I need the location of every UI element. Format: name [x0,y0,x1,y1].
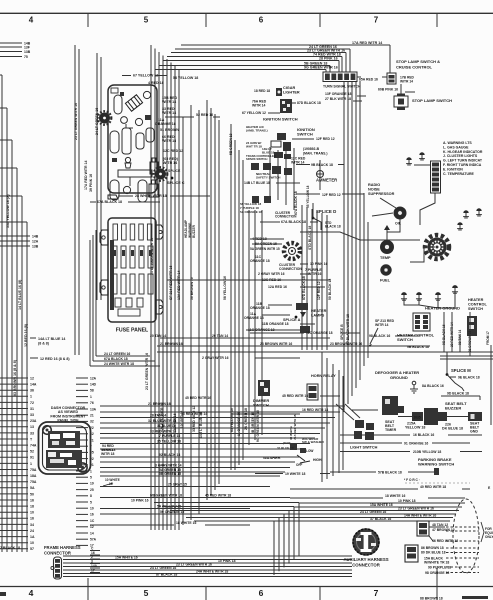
svg-text:23 LT GREEN WITR 16: 23 LT GREEN WITR 16 [176,563,212,567]
svg-text:55A YELLOW 18 (X): 55A YELLOW 18 (X) [6,194,10,228]
svg-text:3 GRAY WITR 14: 3 GRAY WITR 14 [155,464,182,468]
svg-text:1: 1 [30,462,32,466]
svg-text:17: 17 [91,569,95,573]
svg-text:88 BROWN 18: 88 BROWN 18 [420,597,443,600]
svg-text:BUZZER: BUZZER [445,406,461,411]
svg-text:SAFETY SWITCH: SAFETY SWITCH [256,176,280,180]
svg-text:98 BLACK 16: 98 BLACK 16 [369,334,390,338]
svg-text:12 RED 16 (8): 12 RED 16 (8) [24,323,28,347]
svg-text:2A GREEN 18: 2A GREEN 18 [244,408,248,430]
svg-text:5A GREEN WITR 15: 5A GREEN WITR 15 [250,247,280,251]
svg-text:67A BLACK 18: 67A BLACK 18 [104,357,128,361]
svg-text:14A LT BLUE 14: 14A LT BLUE 14 [38,337,65,341]
svg-text:5: 5 [90,500,92,504]
svg-text:35 YELLOW 18: 35 YELLOW 18 [157,440,181,444]
svg-text:67A BLACK 18: 67A BLACK 18 [97,200,122,204]
svg-text:25: 25 [90,488,94,492]
svg-text:65A RED 16: 65A RED 16 [359,78,378,82]
svg-text:58: 58 [90,389,94,393]
svg-text:13B: 13B [24,50,31,54]
svg-text:5B GREEN 18: 5B GREEN 18 [229,133,233,155]
svg-text:40 RED WITR 18: 40 RED WITR 18 [420,485,446,489]
svg-text:13: 13 [30,425,34,429]
svg-text:24 LT GREEN 16: 24 LT GREEN 16 [360,510,386,514]
svg-text:LIGHT SWITCH: LIGHT SWITCH [350,446,378,450]
svg-text:37 BLACK 16: 37 BLACK 16 [370,517,391,521]
svg-text:67A BLACK 18: 67A BLACK 18 [294,191,298,215]
svg-text:8: 8 [90,494,92,498]
svg-text:7: 7 [374,16,379,25]
svg-text:87 BLACK 18: 87 BLACK 18 [156,573,177,577]
svg-text:67 YELLOW 12: 67 YELLOW 12 [133,74,158,78]
svg-text:ORANGE 18: ORANGE 18 [250,259,270,263]
svg-text:CONNECTOR: CONNECTOR [44,551,71,556]
svg-text:12A RED 16: 12A RED 16 [268,285,287,289]
svg-text:21 BROWN 16: 21 BROWN 16 [160,342,183,346]
svg-text:15A WHITE 16: 15A WHITE 16 [115,556,138,560]
svg-text:18A: 18A [30,474,37,478]
svg-text:12: 12 [90,525,94,529]
svg-text:FRAME HARNESS: FRAME HARNESS [44,545,81,550]
svg-text:SWITCH: SWITCH [397,337,413,342]
svg-text:4: 4 [29,588,34,598]
svg-text:6: 6 [259,588,264,598]
svg-text:CONTROL: CONTROL [468,303,487,307]
svg-text:52: 52 [30,450,34,454]
svg-text:57B BLACK 18: 57B BLACK 18 [378,471,402,475]
svg-text:9E BLACK 18: 9E BLACK 18 [458,376,480,380]
svg-text:10 PINK 16: 10 PINK 16 [310,262,328,266]
svg-text:SWITCH: SWITCH [297,132,313,137]
svg-text:G. LEFT TURN INDICAT: G. LEFT TURN INDICAT [443,159,483,163]
svg-text:F. RIGHT TURN INDICA: F. RIGHT TURN INDICA [443,163,482,167]
svg-text:NOISE: NOISE [368,188,380,192]
svg-text:23 LT GREEN WITR 16: 23 LT GREEN WITR 16 [398,507,434,511]
svg-text:14B LT BLUE 18: 14B LT BLUE 18 [244,181,270,185]
svg-text:23 BROWN WITR 16: 23 BROWN WITR 16 [330,342,362,346]
svg-text:CRUISE CONTROL: CRUISE CONTROL [396,65,433,70]
svg-text:16 RED WITR 14: 16 RED WITR 14 [302,408,328,412]
svg-text:21 BROWN 16: 21 BROWN 16 [148,402,171,406]
svg-text:BUZZER: BUZZER [192,224,196,238]
svg-text:* F O R C ·: * F O R C · [404,478,420,482]
svg-text:98 ORANGE 18: 98 ORANGE 18 [425,571,449,575]
svg-text:2: 2 [91,555,93,559]
svg-text:HEATER: HEATER [311,309,327,313]
svg-text:10: 10 [90,507,94,511]
svg-text:LOW: LOW [306,449,313,453]
svg-text:ALT/RED WITR 15: ALT/RED WITR 15 [293,414,297,440]
svg-text:IGNITION SWITCH: IGNITION SWITCH [263,117,298,122]
svg-text:TEMP: TEMP [380,256,391,260]
svg-text:5B GREEN 15: 5B GREEN 15 [159,472,181,476]
svg-text:HORN RELAY: HORN RELAY [311,374,336,378]
svg-text:13A: 13A [90,407,97,411]
svg-text:STD BLACK 18: STD BLACK 18 [308,226,312,250]
svg-text:A. WARNING LTS: A. WARNING LTS [443,141,472,145]
svg-text:24: 24 [30,529,34,533]
svg-text:14: 14 [90,531,94,535]
svg-text:CIGAR: CIGAR [283,86,295,90]
svg-text:(190892-B: (190892-B [303,147,320,151]
svg-text:45 RED WITR 16: 45 RED WITR 16 [185,396,211,400]
svg-text:4 RED 18: 4 RED 18 [148,81,164,85]
svg-text:18: 18 [30,505,34,509]
svg-text:14A: 14A [91,564,98,568]
svg-text:48 TAN 12: 48 TAN 12 [432,523,448,527]
svg-text:13F ORANGE 18: 13F ORANGE 18 [325,92,351,96]
svg-text:SPLICE C: SPLICE C [167,181,185,185]
svg-text:7 PURPLE 16: 7 PURPLE 16 [159,434,180,438]
svg-text:(8 & 8): (8 & 8) [38,342,50,346]
svg-text:HEATER GROUND: HEATER GROUND [425,306,460,311]
svg-text:20 TAN 14: 20 TAN 14 [150,334,166,338]
svg-text:7: 7 [374,588,379,598]
svg-text:87D BLACK 18: 87D BLACK 18 [297,101,321,105]
svg-text:TURN SIGNAL SWITCH: TURN SIGNAL SWITCH [323,84,361,88]
svg-text:23 LT GREEN WITR 16: 23 LT GREEN WITR 16 [74,103,78,140]
svg-text:C. TEMPERATURE: C. TEMPERATURE [443,172,475,176]
svg-text:BLACK 18: BLACK 18 [325,225,341,229]
svg-text:SPLICE B: SPLICE B [340,324,344,340]
svg-text:12: 12 [30,376,34,380]
svg-text:M8 GREEN WITR 18: M8 GREEN WITR 18 [150,494,182,498]
svg-text:99 PURPLE 18: 99 PURPLE 18 [428,566,451,570]
svg-text:E. IGNITION: E. IGNITION [443,167,463,171]
svg-text:36: 36 [30,389,34,393]
svg-text:15A WHITE 16: 15A WHITE 16 [370,503,393,507]
svg-text:14A WHITE WITR 16: 14A WHITE WITR 16 [404,514,436,518]
svg-text:28 TAN 14: 28 TAN 14 [150,414,166,418]
svg-text:HEATER: HEATER [468,298,484,302]
svg-text:AUXILIARY HARNESS: AUXILIARY HARNESS [343,557,388,562]
svg-text:14D: 14D [90,383,97,387]
svg-text:60B PINK 16: 60B PINK 16 [378,88,398,92]
svg-text:19: 19 [90,482,94,486]
svg-text:86 BROWN 18: 86 BROWN 18 [421,546,444,550]
svg-text:67A BLACK 18: 67A BLACK 18 [281,220,306,224]
svg-text:FUSE PANEL: FUSE PANEL [116,328,149,334]
svg-text:92 BLACK 18: 92 BLACK 18 [159,453,180,457]
svg-text:17A RED WITR 14: 17A RED WITR 14 [352,41,382,45]
svg-text:WITR 14: WITR 14 [162,100,176,104]
svg-text:12A: 12A [90,376,97,380]
svg-text:28 PINK 16: 28 PINK 16 [319,57,338,61]
svg-text:17A RED WITR 14: 17A RED WITR 14 [84,161,88,190]
svg-text:3: 3 [91,560,93,564]
svg-text:51 BROWN: 51 BROWN [160,128,179,132]
svg-text:52 RED 16: 52 RED 16 [196,113,213,117]
svg-text:TIMER: TIMER [385,428,397,432]
svg-text:GROUND: GROUND [390,375,408,380]
svg-text:74A: 74A [30,444,37,448]
svg-text:55 YELLOW 18: 55 YELLOW 18 [306,185,310,208]
svg-text:6: 6 [259,16,264,25]
svg-text:31: 31 [30,407,34,411]
svg-text:14 LT BLUE 16 (8): 14 LT BLUE 16 (8) [18,279,22,310]
svg-text:SPARK SWITCH: SPARK SWITCH [246,157,267,161]
svg-text:1A: 1A [30,535,35,539]
svg-text:1: 1 [30,395,32,399]
svg-text:1C: 1C [90,519,95,523]
svg-text:ORANGE 18: ORANGE 18 [155,122,176,126]
svg-text:14A: 14A [30,383,37,387]
svg-text:5: 5 [90,476,92,480]
svg-text:12F RED 12: 12F RED 12 [322,193,341,197]
svg-text:CONNECTION: CONNECTION [279,267,302,271]
svg-text:16: 16 [30,498,34,502]
svg-text:SPLICE D: SPLICE D [316,209,336,214]
svg-text:210B YELLOW 18: 210B YELLOW 18 [413,450,441,454]
svg-text:WITR 14: WITR 14 [400,80,413,84]
svg-text:50 BLACK 18: 50 BLACK 18 [328,279,332,300]
svg-text:L. GAS GAUGE: L. GAS GAUGE [443,145,469,149]
svg-text:SF 214 RED WITR 16: SF 214 RED WITR 16 [169,266,173,300]
svg-text:16 RED WITR 14: 16 RED WITR 14 [181,412,207,416]
svg-text:11B ORANGE 18: 11B ORANGE 18 [262,322,289,326]
svg-text:9B BLACK 18: 9B BLACK 18 [311,163,333,167]
svg-text:57: 57 [30,547,34,551]
svg-text:(AMB. TRANS.): (AMB. TRANS.) [246,129,268,133]
svg-text:24A WHITE WITR 18: 24A WHITE WITR 18 [196,570,228,574]
svg-text:33 RED WITR 14: 33 RED WITR 14 [150,430,176,434]
svg-text:16 BLACK 16: 16 BLACK 16 [413,433,434,437]
svg-text:45 RED WITR 18: 45 RED WITR 18 [205,494,231,498]
svg-text:WITR 14: WITR 14 [252,104,265,108]
svg-text:9G GREEN WITR 16: 9G GREEN WITR 16 [304,66,338,70]
svg-text:24 LT GREEN 16: 24 LT GREEN 16 [104,352,130,356]
svg-text:12F RED 12: 12F RED 12 [317,281,321,300]
svg-text:120 RED 12: 120 RED 12 [180,410,184,428]
svg-text:28 WHITE WITR 18: 28 WHITE WITR 18 [135,194,167,198]
svg-text:20 TAN 14: 20 TAN 14 [212,334,228,338]
svg-text:10 PINK 18: 10 PINK 18 [398,499,416,503]
svg-text:21: 21 [90,414,94,418]
svg-text:SUPPRESSOR: SUPPRESSOR [368,192,395,196]
svg-text:56 BROWN 16: 56 BROWN 16 [190,277,194,300]
svg-text:AMMETER: AMMETER [316,178,337,183]
svg-text:YELLOW 18: YELLOW 18 [405,426,425,430]
svg-text:FROM 17: FROM 17 [486,331,490,345]
svg-text:12F RED 12: 12F RED 12 [316,137,335,141]
svg-text:58 YELLOW 18: 58 YELLOW 18 [173,76,198,80]
svg-text:SPLICE: SPLICE [168,169,181,173]
svg-text:STOP LAMP SWITCH &: STOP LAMP SWITCH & [396,59,440,64]
svg-text:1: 1 [90,395,92,399]
svg-text:OFF: OFF [296,463,302,467]
svg-text:10 PINK 16: 10 PINK 16 [131,499,149,503]
svg-text:31 BLUE 14: 31 BLUE 14 [157,424,176,428]
svg-text:23A: 23A [30,419,37,423]
svg-text:75: 75 [24,55,28,59]
svg-text:39 PINK 16: 39 PINK 16 [89,174,93,192]
svg-text:10: 10 [30,511,34,515]
svg-text:K. HI-GEAR INDICATOR: K. HI-GEAR INDICATOR [443,150,483,154]
svg-text:WITR 16: WITR 16 [308,272,321,276]
svg-text:WITR 14: WITR 14 [163,161,177,165]
svg-text:57A: 57A [90,538,97,542]
svg-text:1035: 1035 [414,416,421,420]
svg-text:1: 1 [90,469,92,473]
svg-text:5A ORANGE 18: 5A ORANGE 18 [240,210,262,214]
svg-text:FUEL: FUEL [380,279,391,283]
svg-text:8A BLACK 16: 8A BLACK 16 [422,384,444,388]
svg-text:25 GRAY 15: 25 GRAY 15 [168,483,187,487]
svg-text:WITR 14: WITR 14 [162,111,176,115]
svg-text:ORANGE 18: ORANGE 18 [244,316,264,320]
svg-text:J. CLUSTER LIGHTS: J. CLUSTER LIGHTS [443,154,478,158]
svg-text:19 WHITE 18: 19 WHITE 18 [285,472,305,476]
svg-text:72: 72 [30,401,34,405]
svg-text:ONLY: ONLY [485,535,493,539]
svg-text:46 RED WITR 12: 46 RED WITR 12 [432,539,458,543]
svg-text:9D BLACK 18: 9D BLACK 18 [447,392,469,396]
svg-text:(MAN. TRANS.): (MAN. TRANS.) [303,152,328,156]
svg-text:75A: 75A [30,480,37,484]
svg-text:DK BLUE 18: DK BLUE 18 [442,427,463,431]
svg-text:16: 16 [90,513,94,517]
svg-text:27 BLACK WITR 18: 27 BLACK WITR 18 [346,314,350,345]
svg-text:80 DK BLUE 18: 80 DK BLUE 18 [421,551,446,555]
svg-text:18 WHITE 16: 18 WHITE 16 [385,494,405,498]
svg-text:STOP LAMP SWITCH: STOP LAMP SWITCH [412,98,452,103]
svg-text:WHT TR 18: WHT TR 18 [246,145,262,149]
svg-text:67 YELLOW 12: 67 YELLOW 12 [242,111,266,115]
svg-text:11 ORANGE 16: 11 ORANGE 16 [237,412,241,436]
svg-text:LAMPS: LAMPS [311,314,325,318]
svg-text:5: 5 [144,588,149,598]
svg-text:GND: GND [470,430,478,434]
svg-text:11C ORANGE 18: 11C ORANGE 18 [306,331,333,335]
svg-text:33: 33 [30,431,34,435]
svg-text:T: T [30,437,33,441]
svg-text:WITR 14: WITR 14 [291,161,304,165]
svg-text:23 BROWN WITR 16: 23 BROWN WITR 16 [260,342,292,346]
svg-text:7 BLACK 18: 7 BLACK 18 [0,546,20,550]
svg-text:5: 5 [144,16,149,25]
svg-text:4: 4 [29,16,34,25]
svg-text:13C RED 16: 13C RED 16 [262,278,281,282]
svg-text:ORANGE 18: ORANGE 18 [250,306,270,310]
svg-text:5A: 5A [30,486,35,490]
svg-text:CONNECTOR: CONNECTOR [352,563,381,568]
svg-text:24 LT GREEN 16: 24 LT GREEN 16 [150,566,176,570]
svg-text:10 PINK 18: 10 PINK 18 [218,559,236,563]
svg-text:14B: 14B [32,234,39,238]
svg-text:13F: 13F [24,45,30,49]
svg-text:32: 32 [90,420,94,424]
svg-text:HIGH: HIGH [313,458,322,462]
svg-text:10: 10 [30,541,34,545]
svg-text:2 GRAY WITR 16: 2 GRAY WITR 16 [202,356,229,360]
svg-text:WITR 18: WITR 18 [101,452,114,456]
svg-text:12 RED 16 (8 & 8): 12 RED 16 (8 & 8) [40,357,70,361]
svg-text:RADIO: RADIO [368,183,380,187]
svg-text:75A: 75A [30,468,37,472]
svg-text:SWITCH: SWITCH [468,307,483,311]
svg-text:76: 76 [90,401,94,405]
svg-text:2 GRAY WITR 16: 2 GRAY WITR 16 [258,272,285,276]
svg-text:WITR 18: WITR 18 [102,448,115,452]
svg-text:SWITCH: SWITCH [253,403,269,408]
svg-text:91: 91 [30,456,34,460]
svg-text:9G GREEN WITR 16: 9G GREEN WITR 16 [256,410,260,442]
svg-text:23 LT GREEN WITR 16: 23 LT GREEN WITR 16 [145,353,149,390]
svg-text:WITR 14: WITR 14 [375,323,388,327]
svg-text:OIL: OIL [395,222,402,226]
svg-text:18 RED 18: 18 RED 18 [254,89,270,93]
svg-text:13A RED WITR 14: 13A RED WITR 14 [177,271,181,300]
svg-text:27 BLK WITR 18: 27 BLK WITR 18 [325,97,351,101]
svg-text:18 WHITE 16: 18 WHITE 16 [176,521,196,525]
svg-text:50: 50 [30,492,34,496]
svg-text:32 BLUE WITR 14: 32 BLUE WITR 14 [148,419,176,423]
svg-text:CONNECTION: CONNECTION [275,215,297,219]
svg-text:91 ORANGE 16: 91 ORANGE 16 [404,442,428,446]
svg-text:45 RED WITR 16: 45 RED WITR 16 [282,394,308,398]
svg-text:34: 34 [30,523,34,527]
svg-text:16: 16 [30,517,34,521]
svg-text:12A: 12A [32,239,39,243]
svg-text:33: 33 [30,413,34,417]
svg-text:W/WHITE TR 18: W/WHITE TR 18 [424,561,449,565]
svg-text:WARNING SWITCH: WARNING SWITCH [418,462,454,467]
svg-text:LIGHTER: LIGHTER [283,91,300,95]
svg-text:SPLICE M: SPLICE M [451,368,471,373]
svg-text:WITR 18: WITR 18 [162,139,176,143]
svg-text:24 WHITE WITR 18: 24 WHITE WITR 18 [104,362,134,366]
svg-text:12C RED 12: 12C RED 12 [163,149,183,153]
svg-text:E: E [488,486,491,490]
svg-text:13B: 13B [32,244,39,248]
